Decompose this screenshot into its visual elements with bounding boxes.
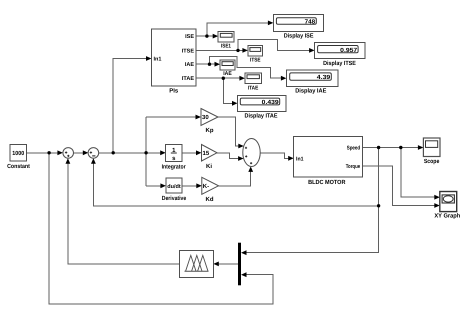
svg-text:XY Graph: XY Graph xyxy=(434,213,460,220)
svg-text:IAE: IAE xyxy=(185,62,195,68)
wire Speed to Scope xyxy=(363,147,419,149)
wire sum ellipse to BLDC In1 xyxy=(260,153,288,159)
integrator block 1/s xyxy=(162,144,187,170)
arrowhead into Display ITSE xyxy=(309,48,315,53)
arrowhead into Scope xyxy=(418,145,424,150)
display ITSE block (value 0.957) xyxy=(315,43,365,67)
svg-text:Integrator: Integrator xyxy=(162,164,187,171)
junction dot speed feedback split xyxy=(377,204,380,207)
svg-text:0.439: 0.439 xyxy=(262,99,280,106)
wire PIs ITSE to ITSE scope xyxy=(196,49,243,51)
arrowhead into sum1 left xyxy=(57,150,63,155)
wire error branch up to PIs In1 xyxy=(113,59,146,153)
svg-text:15: 15 xyxy=(203,150,210,157)
arrowhead into BLDC In1 xyxy=(288,156,294,161)
wire speed feedback vertical down to mux top input xyxy=(246,148,378,253)
svg-text:748: 748 xyxy=(305,19,316,26)
arrowhead into sum1 bottom xyxy=(66,158,71,164)
wire PIs ITAE to ITAE scope xyxy=(196,77,240,79)
scope block xyxy=(423,138,440,165)
wire PIs IAE to IAE scope xyxy=(196,63,215,65)
display IAE block (value 4.39) xyxy=(286,70,337,94)
svg-text:Display IAE: Display IAE xyxy=(295,88,326,95)
svg-text:Constant: Constant xyxy=(7,163,30,170)
arrowhead into ISE1 scope xyxy=(213,34,219,39)
wire ISE branch to Display ISE xyxy=(207,23,268,36)
ISE1 mini scope block xyxy=(218,31,234,49)
fuzzy logic controller block xyxy=(179,250,213,277)
arrowhead into mux top input xyxy=(241,250,247,255)
svg-text:Speed: Speed xyxy=(347,146,361,152)
wire sum1 to sum2 xyxy=(74,152,84,154)
arrowhead into XY Graph input 2 xyxy=(434,203,440,208)
svg-text:ITSE: ITSE xyxy=(250,58,261,64)
arrowhead into Ki xyxy=(196,150,202,155)
gain Kp triangle xyxy=(201,109,218,135)
sum1 circle xyxy=(63,148,74,159)
arrowhead into mux bottom input xyxy=(241,272,247,277)
arrowhead into Display IAE xyxy=(281,76,287,81)
junction dot speed to XY1 xyxy=(399,146,402,149)
wire ITAE branch to Display ITAE xyxy=(223,78,232,103)
arrowhead into IAE scope xyxy=(215,62,221,67)
wire sum2 to integrator (main error line) xyxy=(99,152,161,154)
arrowhead into Display ISE xyxy=(268,21,274,26)
display ITAE block (value 0.439) xyxy=(238,95,287,119)
mux block (vertical bar) xyxy=(238,243,241,286)
arrowhead into ITAE scope xyxy=(239,76,245,81)
junction dot bracket branch xyxy=(144,151,147,154)
IAE mini scope block xyxy=(220,60,235,77)
wire to Derivative input xyxy=(146,185,161,187)
sum2 circle xyxy=(88,148,99,159)
junction dot In1 branch xyxy=(112,151,115,154)
svg-text:Ki: Ki xyxy=(206,163,212,170)
arrowhead Kd into sum ellipse bottom xyxy=(248,166,253,172)
derivative block du/dt xyxy=(162,178,187,202)
arrowhead into Integrator xyxy=(160,150,166,155)
ITAE mini scope block xyxy=(245,73,261,92)
wire integrator to Ki xyxy=(182,152,196,154)
svg-text:K-: K- xyxy=(203,183,209,190)
svg-text:Display ISE: Display ISE xyxy=(284,33,314,40)
PIs subsystem block xyxy=(152,29,197,95)
junction dot ITSE branch xyxy=(236,49,239,52)
svg-text:Display ITAE: Display ITAE xyxy=(245,113,278,120)
svg-text:In1: In1 xyxy=(154,57,162,63)
svg-text:Scope: Scope xyxy=(424,158,440,165)
arrowhead Kp into sum ellipse xyxy=(238,144,244,149)
arrowhead into Kp xyxy=(196,115,202,120)
svg-text:Kd: Kd xyxy=(206,196,214,203)
svg-text:1000: 1000 xyxy=(12,150,25,157)
wire constant feedback down and along bottom to mux bottom input xyxy=(49,153,273,304)
arrowhead into Derivative xyxy=(160,183,166,188)
svg-text:PIs: PIs xyxy=(169,88,179,95)
svg-text:BLDC MOTOR: BLDC MOTOR xyxy=(308,179,346,186)
wire speed feedback left to sum2 bottom xyxy=(93,163,378,206)
arrowhead into Kd xyxy=(196,183,202,188)
wire derivative to Kd xyxy=(182,185,197,187)
svg-text:Display ITSE: Display ITSE xyxy=(323,60,356,67)
wire Speed branch to XY Graph input 1 xyxy=(401,148,435,198)
gain Kd triangle xyxy=(202,177,219,203)
constant block 1000 xyxy=(7,145,30,170)
arrowhead into Display ITAE xyxy=(232,101,238,106)
svg-text:ISE: ISE xyxy=(185,34,194,40)
svg-text:ITAE: ITAE xyxy=(248,86,259,92)
arrowhead into XY Graph input 1 xyxy=(434,195,440,200)
arrowhead into sum2 bottom xyxy=(91,158,96,164)
svg-text:Derivative: Derivative xyxy=(162,195,187,202)
svg-text:4.39: 4.39 xyxy=(317,74,331,81)
arrowhead mux output into fuzzy xyxy=(213,262,219,267)
wire mux output to fuzzy input xyxy=(219,263,238,265)
svg-text:ITAE: ITAE xyxy=(182,76,194,82)
svg-text:ISE1: ISE1 xyxy=(221,44,231,50)
svg-text:IAE: IAE xyxy=(223,71,232,77)
wire Kp out to sum ellipse xyxy=(218,117,239,146)
svg-text:30: 30 xyxy=(202,114,209,121)
wire constant to sum1 xyxy=(27,152,58,154)
svg-text:0.957: 0.957 xyxy=(340,47,358,54)
wire IAE branch to Display IAE xyxy=(210,56,282,78)
wire ITSE branch to Display ITSE xyxy=(238,39,310,50)
svg-text:du/dt: du/dt xyxy=(167,184,181,190)
arrowhead into ITSE scope xyxy=(242,48,248,53)
sum ellipse (3 inputs) xyxy=(243,139,260,167)
arrowhead Ki into sum ellipse xyxy=(238,156,244,161)
arrowhead into PIs In1 xyxy=(146,56,152,61)
arrowhead into sum2 left xyxy=(83,150,89,155)
junction dot speed feedback xyxy=(377,146,380,149)
svg-text:Torque: Torque xyxy=(346,164,361,170)
wire Torque to XY Graph input 2 xyxy=(363,166,435,206)
junction dot ISE branch xyxy=(205,34,208,37)
svg-text:Kp: Kp xyxy=(206,127,214,134)
BLDC MOTOR subsystem block xyxy=(294,137,363,187)
ITSE mini scope block xyxy=(248,46,263,64)
wire bracket vertical to Kp and Derivative xyxy=(145,117,147,186)
display ISE block (value 748) xyxy=(273,15,323,40)
wire PIs ISE to ISE1 scope xyxy=(196,35,213,37)
wire fuzzy output left and up to sum1 bottom xyxy=(68,163,179,264)
svg-text:In1: In1 xyxy=(296,156,304,162)
junction dot constant branch xyxy=(47,151,50,154)
wire Kd out to sum ellipse bottom xyxy=(219,172,251,186)
junction dot IAE branch xyxy=(208,62,211,65)
svg-text:ITSE: ITSE xyxy=(182,48,195,54)
gain Ki triangle xyxy=(202,145,218,170)
junction dot ITAE branch xyxy=(222,77,225,80)
wire to Kp input xyxy=(146,116,196,118)
wire Ki out to sum ellipse xyxy=(217,153,238,159)
XY Graph block xyxy=(434,192,460,220)
